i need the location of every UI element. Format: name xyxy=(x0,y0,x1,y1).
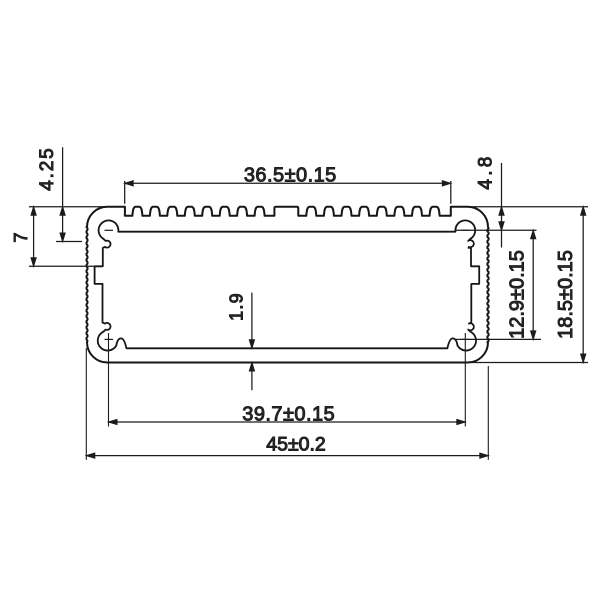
inner cavity contour with screw bosses, nubs, PCB grooves and ribs xyxy=(95,220,480,350)
svg-text:4.8: 4.8 xyxy=(476,153,497,189)
svg-text:18.5±0.15: 18.5±0.15 xyxy=(555,250,577,339)
dimension 18.5±0.15 line xyxy=(582,207,584,363)
boss centre mark bottom-left xyxy=(105,338,114,340)
dimension 4.8 line xyxy=(501,163,503,248)
outer profile contour with cooling fins and knurled sides xyxy=(87,207,489,363)
boss centre mark top-right xyxy=(461,229,469,231)
dimension 36.5±0.15 line xyxy=(125,182,451,184)
top edge extension line right xyxy=(470,206,588,208)
dimension 1.9 lines xyxy=(251,293,253,349)
dimension 4.25 extension line xyxy=(56,241,82,243)
dimension 4.25 line xyxy=(62,147,64,242)
svg-text:7: 7 xyxy=(11,232,31,242)
dimension 45±0.2 line xyxy=(86,455,488,457)
svg-text:39.7±0.15: 39.7±0.15 xyxy=(242,404,335,426)
bottom boss centre extension line right xyxy=(456,338,541,340)
dimension 12.9±0.15 line xyxy=(532,230,534,339)
dimension 7 extension line xyxy=(29,265,96,267)
svg-text:36.5±0.15: 36.5±0.15 xyxy=(244,165,337,187)
svg-text:1.9: 1.9 xyxy=(226,292,246,321)
boss centre mark bottom-right xyxy=(461,338,469,340)
svg-text:4.25: 4.25 xyxy=(37,147,58,191)
top edge extension line left xyxy=(29,206,106,208)
boss centre mark top-left xyxy=(105,229,114,231)
boss centre extension line right xyxy=(456,229,537,231)
dimension 39.7 extension lines (boss centre lines) xyxy=(108,333,110,427)
dimension 36.5±0.15 extension lines xyxy=(124,181,126,204)
bottom edge extension line right xyxy=(470,362,588,364)
svg-text:45±0.2: 45±0.2 xyxy=(266,434,326,456)
dimension 7 line xyxy=(33,207,35,267)
svg-text:12.9±0.15: 12.9±0.15 xyxy=(507,250,529,339)
dimension 45 extension lines xyxy=(85,348,87,460)
dimension 39.7±0.15 line xyxy=(109,421,466,423)
